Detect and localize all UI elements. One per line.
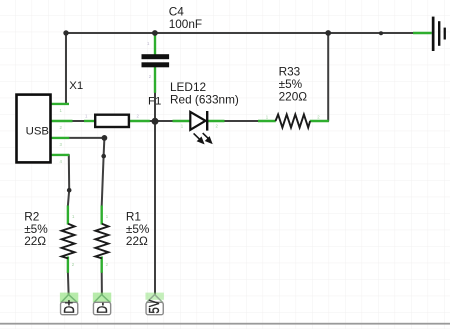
svg-text:D-: D- (93, 302, 110, 313)
svg-text:Red (633nm): Red (633nm) (170, 92, 239, 106)
svg-text:22Ω: 22Ω (24, 234, 46, 248)
svg-text:5V: 5V (145, 299, 162, 313)
svg-text:USB: USB (26, 125, 49, 137)
svg-text:220Ω: 220Ω (279, 90, 308, 104)
svg-text:X1: X1 (69, 80, 83, 92)
svg-text:D+: D+ (60, 300, 77, 314)
svg-text:100nF: 100nF (169, 17, 202, 31)
svg-text:22Ω: 22Ω (126, 234, 148, 248)
